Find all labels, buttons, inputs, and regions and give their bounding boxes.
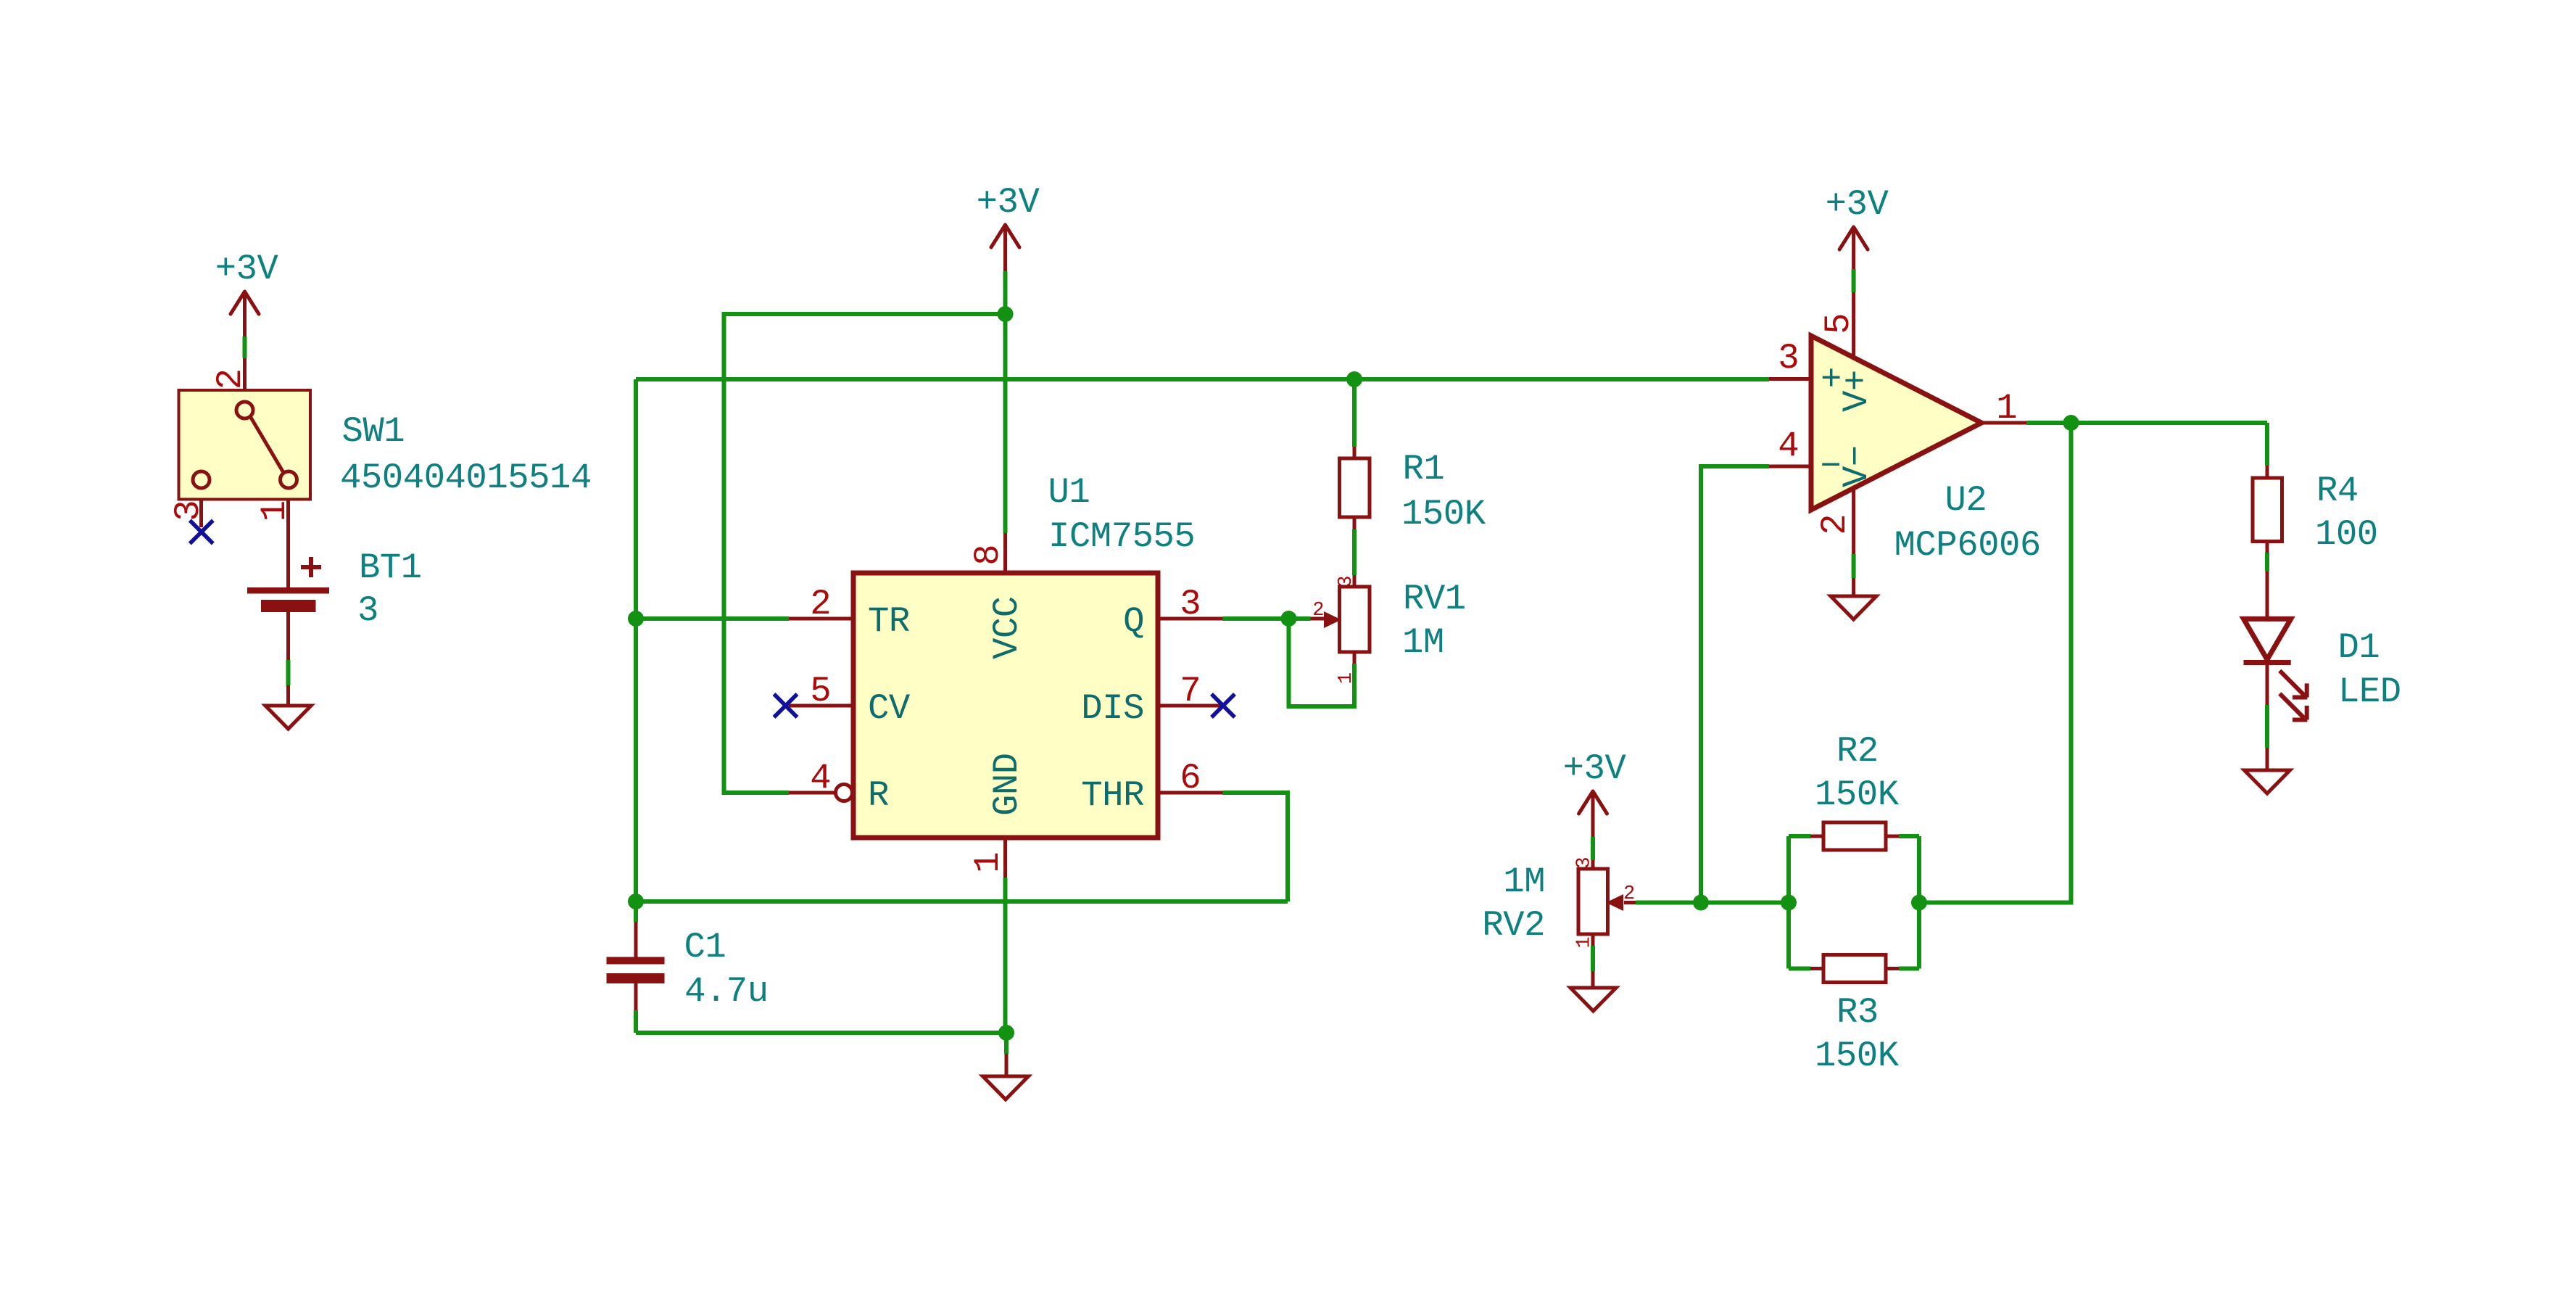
svg-text:R1: R1 — [1403, 449, 1445, 490]
svg-text:3: 3 — [168, 500, 209, 521]
svg-text:6: 6 — [1180, 758, 1201, 798]
svg-text:Q: Q — [1123, 601, 1144, 642]
svg-text:2: 2 — [210, 368, 251, 389]
svg-text:2: 2 — [1623, 883, 1635, 905]
svg-text:1: 1 — [1996, 388, 2017, 429]
svg-text:SW1: SW1 — [342, 411, 405, 452]
svg-text:3: 3 — [1180, 584, 1201, 624]
svg-text:+3V: +3V — [1563, 748, 1627, 789]
svg-text:3: 3 — [1335, 576, 1357, 587]
svg-text:GND: GND — [987, 753, 1027, 816]
svg-text:R: R — [868, 775, 889, 816]
svg-text:3: 3 — [1574, 857, 1596, 868]
svg-text:100: 100 — [2315, 514, 2378, 555]
svg-text:D1: D1 — [2338, 627, 2380, 668]
svg-text:C1: C1 — [684, 927, 726, 967]
svg-text:ICM7555: ICM7555 — [1048, 516, 1195, 557]
svg-text:THR: THR — [1081, 775, 1144, 816]
svg-text:V+: V+ — [1836, 370, 1877, 412]
svg-text:4: 4 — [1778, 426, 1799, 466]
svg-text:CV: CV — [868, 688, 911, 729]
svg-text:R4: R4 — [2316, 471, 2358, 511]
svg-text:+3V: +3V — [977, 182, 1040, 223]
svg-text:1: 1 — [1574, 936, 1596, 948]
svg-text:2: 2 — [810, 584, 831, 624]
svg-text:DIS: DIS — [1081, 688, 1144, 729]
svg-text:RV2: RV2 — [1482, 905, 1545, 946]
svg-text:U1: U1 — [1048, 472, 1090, 513]
svg-text:1: 1 — [1335, 672, 1357, 684]
svg-text:3: 3 — [1778, 338, 1799, 379]
svg-text:2: 2 — [1815, 513, 1855, 535]
svg-text:150K: 150K — [1815, 775, 1900, 815]
svg-text:7: 7 — [1180, 671, 1201, 711]
svg-text:1M: 1M — [1503, 862, 1545, 902]
svg-text:5: 5 — [810, 671, 831, 711]
svg-text:LED: LED — [2338, 672, 2401, 712]
svg-text:1: 1 — [254, 500, 295, 521]
svg-text:150K: 150K — [1815, 1036, 1900, 1076]
svg-text:V−: V− — [1836, 445, 1877, 487]
svg-text:4: 4 — [810, 758, 831, 798]
svg-text:450404015514: 450404015514 — [340, 458, 592, 498]
svg-text:1: 1 — [968, 851, 1009, 872]
svg-text:BT1: BT1 — [359, 548, 422, 588]
svg-text:+3V: +3V — [215, 249, 279, 289]
svg-text:2: 2 — [1312, 600, 1324, 622]
svg-text:3: 3 — [357, 590, 378, 631]
svg-text:MCP6006: MCP6006 — [1894, 525, 2041, 566]
svg-text:8: 8 — [968, 544, 1009, 565]
svg-text:1M: 1M — [1402, 622, 1444, 663]
svg-text:U2: U2 — [1945, 480, 1987, 521]
svg-text:VCC: VCC — [987, 596, 1027, 659]
svg-text:+3V: +3V — [1826, 184, 1889, 225]
svg-text:150K: 150K — [1401, 494, 1486, 535]
svg-text:TR: TR — [868, 601, 910, 642]
svg-text:RV1: RV1 — [1403, 579, 1466, 619]
svg-text:5: 5 — [1818, 313, 1859, 334]
svg-text:4.7u: 4.7u — [684, 971, 769, 1012]
svg-text:R3: R3 — [1836, 992, 1879, 1033]
svg-text:R2: R2 — [1836, 731, 1879, 772]
